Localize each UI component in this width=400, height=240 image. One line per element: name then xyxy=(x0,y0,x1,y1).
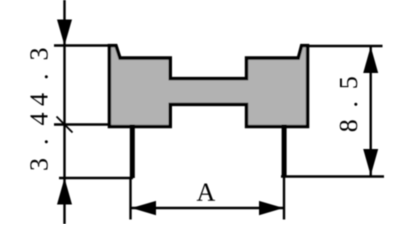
arrow left (A) xyxy=(132,201,157,215)
arrow up (bottom of 3.4) xyxy=(57,178,72,205)
A dimension line xyxy=(132,207,284,209)
left leg xyxy=(130,125,135,179)
arrow down (bottom of 8.5) xyxy=(363,149,378,176)
right dimension line (8.5) xyxy=(370,46,372,176)
extension line bottom right xyxy=(281,175,384,177)
left dimension line (vertical, full height) xyxy=(63,0,65,224)
A extension line left (from left leg) xyxy=(129,177,131,220)
label 4.3 xyxy=(30,49,48,106)
component body (H-profile) xyxy=(109,46,307,127)
oblique tick at middle boundary xyxy=(57,117,73,133)
right leg xyxy=(282,125,287,178)
A extension line right (from right leg) xyxy=(283,177,285,220)
label A xyxy=(197,184,215,201)
arrow down (top of 4.3) xyxy=(57,20,72,46)
extension line middle (4.3 / 3.4 boundary) xyxy=(54,123,110,125)
label 8.5 xyxy=(340,77,358,131)
extension line top (4.3 upper bound) xyxy=(54,44,110,46)
extension line top right xyxy=(308,45,383,47)
extension line bottom left (3.4 lower bound) xyxy=(59,177,133,179)
arrow up (top of 8.5) xyxy=(363,47,378,74)
label 3.4 xyxy=(30,113,48,170)
arrow right (A) xyxy=(259,201,284,215)
